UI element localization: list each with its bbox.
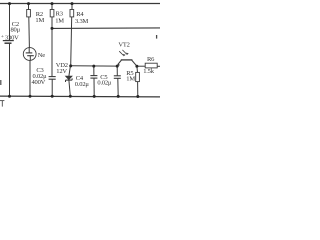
capacitor C5	[114, 76, 121, 79]
svg-text:330V: 330V	[5, 34, 19, 41]
wire R2 to neon lamp	[28, 17, 31, 48]
wire C2 branch upper	[9, 4, 11, 41]
resistor R6	[145, 63, 157, 68]
junction top rail R4	[71, 2, 74, 5]
capacitor C3	[49, 77, 56, 80]
resistor R4	[70, 4, 74, 17]
svg-text:0.02μ: 0.02μ	[97, 79, 112, 86]
svg-text:400V: 400V	[32, 79, 46, 86]
junction top rail R3	[51, 2, 54, 5]
junction bottom rail neon	[29, 95, 32, 98]
svg-text:1M: 1M	[126, 75, 135, 82]
junction bottom rail R5	[136, 95, 139, 98]
wire C3 to bottom rail	[51, 79, 53, 96]
svg-text:80μ: 80μ	[11, 27, 21, 34]
transistor VT2 phototransistor	[117, 50, 137, 66]
wire C5 branch upper	[116, 66, 118, 76]
junction bottom rail C3	[51, 95, 54, 98]
svg-text:R6: R6	[147, 56, 155, 63]
capacitor C4	[90, 76, 97, 79]
wire top supply rail	[0, 3, 160, 5]
edge remnant left mid	[0, 80, 2, 85]
neon lamp Ne	[23, 48, 36, 61]
junction middle R5 collector	[135, 65, 138, 68]
wire bottom supply rail	[0, 95, 160, 98]
wire middle node line left of VT2	[71, 65, 118, 67]
svg-text:Ne: Ne	[38, 52, 45, 59]
edge remnant right label	[156, 35, 158, 39]
wire VD2 to bottom rail	[69, 80, 70, 96]
junction middle C5 emitter	[116, 65, 119, 68]
junction middle VD2	[69, 64, 72, 67]
junction bottom rail C4	[93, 95, 96, 98]
wire C5 to bottom rail	[117, 78, 119, 96]
resistor R2	[27, 4, 31, 17]
junction bottom rail C5	[117, 95, 120, 98]
wire VT2 collector to R6	[137, 65, 145, 67]
resistor R5	[136, 66, 140, 81]
junction top rail C2	[8, 2, 11, 5]
junction top rail R2	[27, 2, 30, 5]
junction bottom rail VD2	[69, 95, 72, 98]
resistor R3	[50, 4, 54, 17]
svg-text:1M: 1M	[35, 17, 44, 24]
svg-text:1M: 1M	[55, 17, 64, 24]
wire middle line after R6	[157, 65, 160, 67]
svg-text:0.02μ: 0.02μ	[75, 81, 90, 88]
wire R5 to bottom rail	[137, 82, 139, 97]
svg-text:3.3M: 3.3M	[75, 18, 89, 25]
svg-text:1.5k: 1.5k	[143, 68, 155, 75]
junction node R3 second rail	[51, 27, 54, 30]
svg-text:VT2: VT2	[118, 41, 129, 48]
svg-text:12V: 12V	[56, 68, 67, 75]
edge remnant T below rail	[0, 101, 4, 107]
wire second rail from R3 node to right edge	[52, 27, 160, 30]
wire C4 branch upper	[93, 66, 95, 76]
capacitor C2	[3, 41, 14, 44]
wire C2 branch lower	[9, 43, 11, 96]
wire R4 down to middle node	[71, 17, 72, 66]
wire C4 to bottom rail	[93, 78, 95, 96]
junction bottom rail C2	[8, 95, 11, 98]
svg-text:+: +	[1, 34, 4, 40]
wire neon to bottom rail	[29, 60, 31, 96]
zener diode VD2	[66, 66, 73, 82]
junction middle C4	[92, 65, 95, 68]
wire R3 to node and down to C3	[51, 17, 53, 77]
